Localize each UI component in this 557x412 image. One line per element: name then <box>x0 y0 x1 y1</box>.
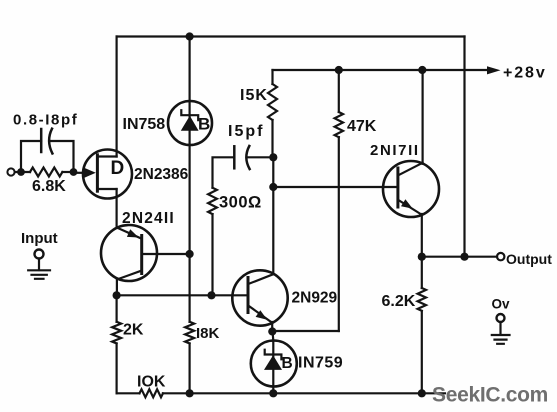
resistor 300ohm zigzag <box>208 188 217 214</box>
diode D2 1N759 cathode bar with zener wings <box>265 350 282 360</box>
svg-text:47K: 47K <box>347 118 377 135</box>
transistor Q4 2N1711 base bar <box>396 168 399 207</box>
transistor Q3 2N929 emitter arrow <box>256 310 268 320</box>
input terminal circle <box>35 250 44 259</box>
input terminal stub <box>38 259 40 271</box>
transistor Q2 2N2411 circle <box>101 225 157 281</box>
transistor Q3 2N929 circle <box>232 270 287 325</box>
wire 6.8K to gate node <box>62 171 73 173</box>
transistor Q4 2N1711 emitter line <box>398 200 422 257</box>
diode D2 1N759 zener circle <box>251 341 297 387</box>
svg-text:2N2386: 2N2386 <box>134 166 189 183</box>
wire output node rail <box>422 256 497 258</box>
diode D2 1N759 triangle anode <box>264 355 282 370</box>
wire trimmer cap left leg <box>21 141 41 172</box>
svg-text:IN759: IN759 <box>298 355 343 372</box>
svg-text:IN758: IN758 <box>123 116 166 133</box>
wire +28v rail <box>273 69 489 71</box>
wire 2N1711 base wire <box>273 186 398 188</box>
transistor Q2 2N2411 emitter arrow (PNP into base) <box>127 229 139 237</box>
wire 6.2K column <box>421 257 423 394</box>
wire 15K bottom to collector column <box>271 120 274 274</box>
transistor Q4 2N1711 collector line <box>398 163 422 176</box>
transistor Q2 2N2411 base bar <box>140 236 143 274</box>
wire 2N929 base wire <box>117 294 248 296</box>
resistor 10K zigzag <box>140 389 163 397</box>
wire FET source to 2N2411 emitter <box>115 189 117 228</box>
ground symbol input <box>28 270 50 279</box>
svg-text:Input: Input <box>21 230 58 247</box>
transistor Q3 2N929 base bar <box>247 278 250 313</box>
diode D2 1N759 internal line <box>272 341 274 393</box>
wire 15K top corner <box>271 70 273 84</box>
transistor Q4 2N1711 emitter arrow <box>401 199 413 208</box>
svg-text:B: B <box>198 115 210 134</box>
wire gate lead <box>74 172 86 174</box>
transistor Q1 2N2386 channel bar <box>96 155 99 191</box>
transistor Q3 2N929 emitter line <box>248 306 272 332</box>
input port terminal open circle <box>7 168 14 175</box>
node junction 47K top <box>335 66 343 74</box>
svg-text:D: D <box>111 158 125 179</box>
transistor Q2 2N2411 collector line <box>117 271 141 296</box>
wire left drain column vertical <box>115 37 117 157</box>
resistor 6.2K zigzag <box>418 288 426 311</box>
svg-text:I5K: I5K <box>240 87 268 104</box>
wire 300ohm bottom leg <box>211 214 213 295</box>
svg-text:300Ω: 300Ω <box>219 194 262 212</box>
node junction bottom 1N759 <box>269 389 277 397</box>
node junction gate node <box>70 168 78 176</box>
capacitor C1 0.8-18pf curved plate <box>49 129 52 154</box>
transistor Q1 2N2386 drain lead <box>97 155 116 157</box>
node junction 2N2411 base / zener / 18K <box>186 250 194 258</box>
node junction 2N2411 collector / 2K / base wire <box>113 291 121 299</box>
svg-text:0.8-I8pf: 0.8-I8pf <box>13 112 78 129</box>
resistor 18K zigzag <box>185 322 194 344</box>
capacitor C1 0.8-18pf left plate <box>40 129 43 152</box>
wire input to 6.8K <box>15 171 30 173</box>
svg-text:IOK: IOK <box>137 374 166 391</box>
transistor Q4 2N1711 circle <box>383 161 439 217</box>
resistor 6.8K zigzag <box>30 168 62 177</box>
wire trimmer cap right leg <box>50 141 74 172</box>
svg-text:2N24II: 2N24II <box>122 210 175 227</box>
node junction emitter output <box>418 253 426 261</box>
diode D1 1N758 zener circle <box>168 101 212 145</box>
power arrow +28v <box>487 66 501 74</box>
transistor Q3 2N929 collector line <box>248 274 273 284</box>
node junction 2N929 emitter node <box>268 327 276 335</box>
wire bottom rail <box>117 392 445 394</box>
svg-text:2N929: 2N929 <box>292 290 338 307</box>
transistor Q2 2N2411 emitter line <box>117 228 142 239</box>
node junction cap 15pf right <box>269 153 277 161</box>
wire right edge column vertical <box>463 37 465 257</box>
capacitor C2 15pf left plate <box>233 146 236 168</box>
wire 47K column upper <box>338 70 340 112</box>
node junction bottom 6.2K <box>418 389 426 397</box>
transistor Q2 2N2411 base lead <box>142 253 190 255</box>
svg-text:B: B <box>282 355 293 372</box>
svg-text:Output: Output <box>506 251 552 267</box>
wire 15pf right to junction <box>247 156 273 158</box>
svg-text:2NI7II: 2NI7II <box>370 142 420 159</box>
0v terminal circle <box>497 314 505 322</box>
svg-text:I5pf: I5pf <box>228 123 264 140</box>
transistor Q1 2N2386 gate arrow <box>84 168 96 178</box>
ground symbol 0v <box>492 335 510 344</box>
resistor 2K zigzag <box>112 322 121 344</box>
wire 15pf left leg down to 300ohm <box>213 157 235 187</box>
node junction 2N1711 base tap <box>269 183 277 191</box>
node junction 2N1711 collector top <box>418 66 426 74</box>
capacitor C2 15pf curved plate <box>246 146 249 169</box>
node junction 300ohm bottom <box>207 291 215 299</box>
svg-text:2K: 2K <box>123 322 144 339</box>
wire emitter node to 1N759 <box>272 332 275 342</box>
svg-text:I8K: I8K <box>196 325 220 342</box>
wire 18K column lower segment <box>189 254 191 393</box>
output terminal circle <box>497 253 504 260</box>
node junction on top rail at zener column <box>186 32 194 40</box>
transistor Q1 2N2386 source lead <box>97 188 116 190</box>
wire 47K bottom corner to 2N929 emitter node <box>272 330 339 332</box>
wire 2N1711 collector column <box>422 70 424 164</box>
svg-text:+28v: +28v <box>503 65 547 82</box>
node junction right column output <box>460 253 468 261</box>
transistor Q1 2N2386 circle <box>83 150 132 199</box>
wire 2K column <box>115 295 117 393</box>
svg-text:6.8K: 6.8K <box>32 178 66 195</box>
svg-text:SeekIC.com: SeekIC.com <box>432 384 548 407</box>
diode D1 1N758 cathode bar with zener wings <box>181 110 198 120</box>
wire top rail horizontal <box>117 35 465 37</box>
node junction bottom 18K <box>186 389 194 397</box>
node junction input cap tap <box>17 168 25 176</box>
diode D1 1N758 triangle anode <box>181 116 199 131</box>
resistor 47K zigzag <box>335 112 343 137</box>
resistor 15K zigzag <box>268 84 277 120</box>
wire zener column upper segment <box>189 37 191 255</box>
0v terminal stub <box>499 322 501 335</box>
wire 47K column lower crossing base wire <box>338 137 340 331</box>
svg-text:6.2K: 6.2K <box>382 293 416 310</box>
svg-text:Ov: Ov <box>492 296 511 311</box>
